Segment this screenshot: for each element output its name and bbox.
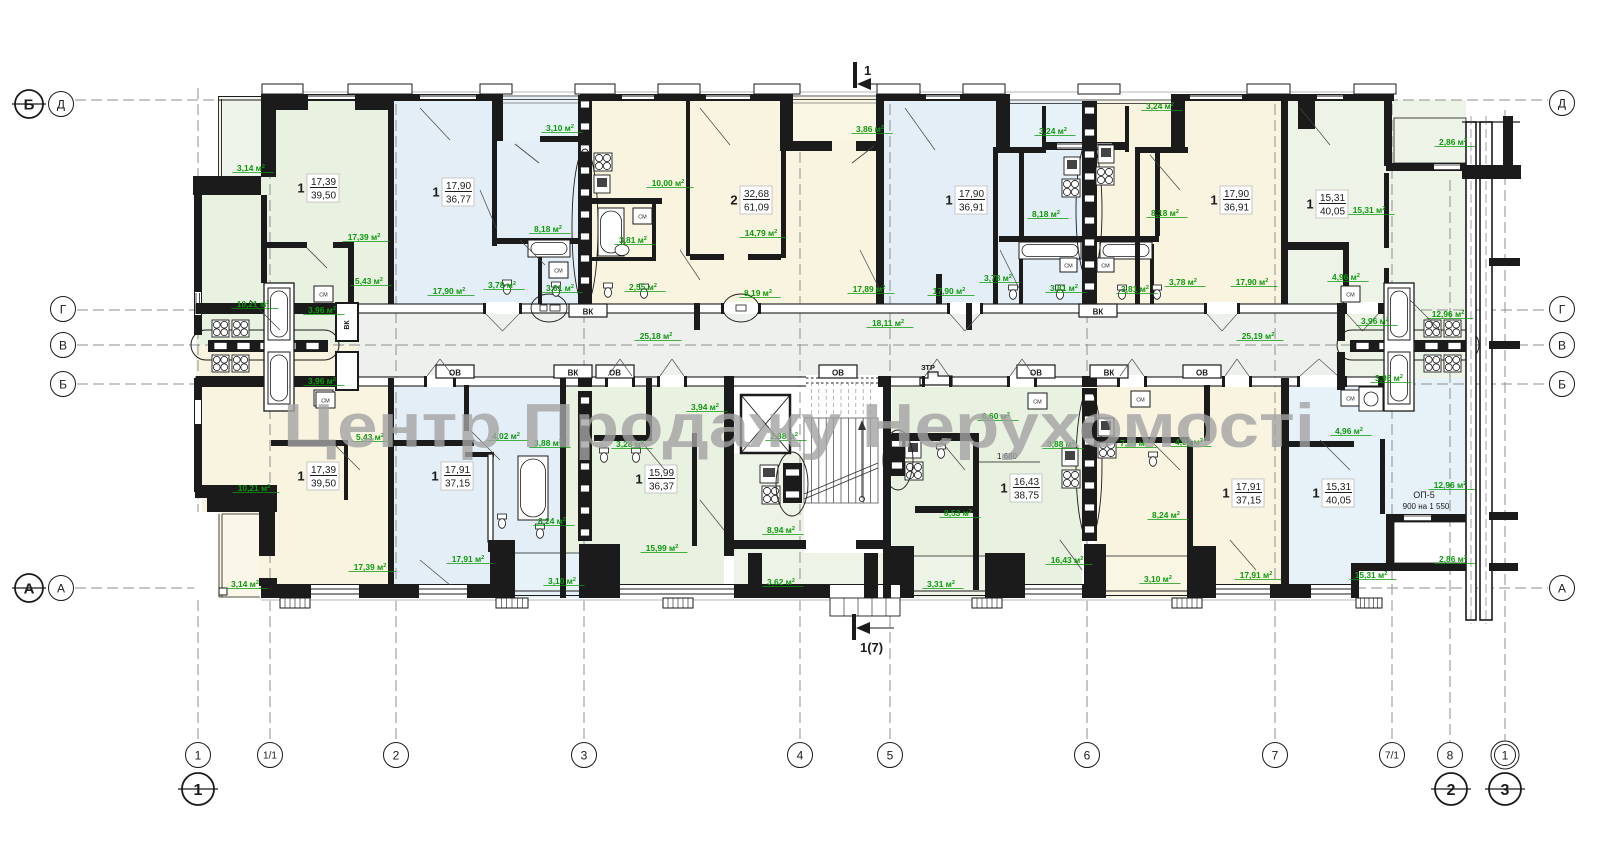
sm box bottom right bbox=[1341, 390, 1360, 406]
right annex double wall pair bbox=[1466, 122, 1476, 620]
svg-text:1: 1 bbox=[431, 469, 438, 484]
stair arrow bbox=[861, 424, 863, 498]
sm boxes bottom center bbox=[1028, 393, 1047, 409]
svg-text:38,75: 38,75 bbox=[1014, 491, 1039, 502]
top-left corner pier bbox=[261, 94, 276, 177]
duct box VK top-left bbox=[569, 304, 607, 317]
right annex top stubs bbox=[1503, 116, 1513, 172]
svg-text:ОВ: ОВ bbox=[609, 369, 621, 378]
left kitchen oval bbox=[191, 330, 339, 360]
sm boxes under tubs bbox=[1060, 258, 1077, 272]
svg-text:17,90 м2: 17,90 м2 bbox=[933, 286, 966, 296]
svg-text:17,91: 17,91 bbox=[445, 465, 470, 476]
svg-text:10,21 м2: 10,21 м2 bbox=[238, 483, 271, 493]
cream2 room left wall bbox=[1135, 149, 1140, 307]
svg-text:3,78 м2: 3,78 м2 bbox=[1169, 277, 1197, 287]
ZTR panel bbox=[920, 372, 952, 385]
svg-text:8: 8 bbox=[1447, 748, 1454, 762]
svg-text:3,24 м2: 3,24 м2 bbox=[1039, 126, 1067, 136]
apartment label 1 17.39/39.50 top bbox=[307, 174, 339, 202]
top-right corner pier bbox=[1298, 94, 1315, 129]
axis circle G left bbox=[51, 297, 76, 322]
svg-text:3,62 м2: 3,62 м2 bbox=[767, 577, 795, 587]
left stoves bbox=[212, 320, 229, 337]
axis line 1/1 vertical bbox=[269, 88, 271, 742]
svg-text:36,91: 36,91 bbox=[959, 203, 984, 214]
svg-text:1: 1 bbox=[297, 469, 304, 484]
svg-text:1(7): 1(7) bbox=[860, 640, 883, 655]
stair kitchen stack left bbox=[783, 463, 802, 503]
svg-text:3,81 м2: 3,81 м2 bbox=[1121, 284, 1149, 294]
svg-text:18,11 м2: 18,11 м2 bbox=[872, 318, 904, 328]
green top-right room bottom wall bbox=[1281, 242, 1347, 250]
axis line 6 vertical bbox=[1086, 88, 1088, 742]
svg-text:СМ: СМ bbox=[319, 293, 328, 299]
apartment label 1 15.31/40.05 top bbox=[1316, 190, 1348, 218]
svg-text:А: А bbox=[24, 580, 35, 597]
svg-text:3,10 м2: 3,10 м2 bbox=[546, 123, 574, 133]
svg-text:3,81 м2: 3,81 м2 bbox=[1050, 283, 1078, 293]
stove cream bottom kitchen bbox=[1098, 440, 1116, 458]
svg-text:3,78 м2: 3,78 м2 bbox=[984, 273, 1012, 283]
svg-text:2,86 м2: 2,86 м2 bbox=[1439, 137, 1467, 147]
apartment hall wall bottom-left bbox=[271, 440, 348, 446]
svg-text:Д: Д bbox=[1558, 96, 1566, 110]
balcony 3.14 top-left bbox=[218, 96, 261, 177]
stove green 38.75 kitchen bbox=[1062, 470, 1080, 488]
svg-text:ВК: ВК bbox=[344, 320, 351, 330]
green 38.75 hall wall bbox=[892, 433, 973, 441]
wall cream/blue bottom right bbox=[1281, 378, 1289, 598]
blue bottom bath walls bbox=[465, 452, 494, 457]
bottom-right step walls bbox=[1351, 563, 1466, 571]
room fill blue apartment bottom-right 40.05 bbox=[1286, 378, 1359, 588]
blue2 kitchen top wall bbox=[993, 147, 1046, 153]
axis line A horizontal bbox=[75, 587, 1548, 589]
green room partition wall bbox=[261, 242, 307, 248]
svg-text:32,68: 32,68 bbox=[744, 189, 769, 200]
svg-text:ВК: ВК bbox=[583, 308, 594, 317]
svg-text:5: 5 bbox=[887, 748, 894, 762]
svg-text:Б: Б bbox=[24, 96, 35, 113]
stair zone fills bbox=[734, 453, 804, 553]
stair kitchen stack right bbox=[889, 434, 905, 476]
axis circle B left bbox=[51, 372, 76, 397]
axis circle G right bbox=[1550, 297, 1575, 322]
bottom outer wall bbox=[261, 584, 1359, 598]
svg-text:1: 1 bbox=[195, 748, 202, 762]
svg-text:3,81 м2: 3,81 м2 bbox=[619, 235, 647, 245]
room fill green apartment bottom 38.75 bbox=[892, 378, 1082, 590]
svg-text:А: А bbox=[1558, 581, 1566, 595]
apartment label 1 17.91/37.15 bottom-left bbox=[441, 462, 473, 490]
tub cream apartment bath bbox=[598, 208, 624, 256]
svg-text:1: 1 bbox=[432, 185, 439, 200]
duct stack bottom axis6 bbox=[1082, 388, 1097, 541]
right horizontal wall with window bbox=[1386, 163, 1466, 171]
corridor fill bbox=[196, 311, 1386, 378]
cream bottom small wall bbox=[1204, 385, 1210, 441]
svg-text:Б: Б bbox=[1558, 377, 1566, 391]
blue 40.05 room right wall bbox=[1380, 439, 1385, 514]
svg-text:17,90: 17,90 bbox=[446, 181, 471, 192]
svg-text:3,78 м2: 3,78 м2 bbox=[488, 280, 516, 290]
axis circle 7/1 bbox=[1380, 743, 1405, 768]
right annex bottom stubs bbox=[1489, 512, 1518, 520]
svg-text:10,21 м2: 10,21 м2 bbox=[237, 299, 270, 309]
corridor top wall solid piers bbox=[196, 303, 265, 314]
blue bottom hall wall bbox=[464, 385, 469, 431]
svg-text:39,50: 39,50 bbox=[311, 191, 336, 202]
sm box bottom-left bbox=[316, 392, 335, 408]
green 38.75 room left wall bbox=[973, 433, 979, 590]
bath wall across blue2 bbox=[999, 236, 1082, 242]
svg-text:ОВ: ОВ bbox=[1196, 369, 1208, 378]
svg-text:3,10 м2: 3,10 м2 bbox=[1144, 574, 1172, 584]
right annex mid stubs bbox=[1489, 258, 1520, 266]
axis circle 4 bbox=[788, 743, 813, 768]
apartment label 2 32.68/61.09 bbox=[740, 186, 772, 214]
top facade loggia 3.86 cream bbox=[793, 94, 876, 101]
svg-text:17,90 м2: 17,90 м2 bbox=[1236, 277, 1269, 287]
svg-text:40,05: 40,05 bbox=[1320, 207, 1345, 218]
svg-text:15,99: 15,99 bbox=[649, 468, 674, 479]
svg-text:А: А bbox=[57, 581, 65, 595]
entrance opening bottom bbox=[830, 585, 900, 598]
svg-text:17,91 м2: 17,91 м2 bbox=[1240, 570, 1273, 580]
axis line G horizontal bbox=[77, 309, 1548, 311]
corridor bottom wall band bbox=[196, 377, 1386, 386]
wall between green and blue apartments top bbox=[388, 94, 394, 311]
svg-text:2,55 м2: 2,55 м2 bbox=[629, 282, 657, 292]
section marker 1 top bbox=[853, 62, 857, 88]
right kitchen oval bbox=[1337, 330, 1479, 360]
outside white bottom-left bbox=[194, 512, 218, 600]
blue apartment top room right wall bbox=[492, 101, 497, 246]
stair vestibule wall bbox=[734, 540, 806, 549]
svg-text:ВК: ВК bbox=[1093, 308, 1104, 317]
section marker 1(7) bottom bbox=[852, 614, 856, 640]
svg-text:1: 1 bbox=[1222, 486, 1229, 501]
corridor bottom wall door gaps bbox=[426, 375, 454, 387]
stove cream2 kitchen bbox=[1096, 167, 1114, 185]
room fill blue apartment top 36.77 bbox=[390, 100, 592, 311]
tub blue2 bbox=[1019, 242, 1081, 259]
right block left walls bbox=[1337, 303, 1345, 341]
left duct bar bbox=[208, 340, 328, 352]
blue bottom right partition bbox=[1286, 441, 1354, 447]
sm boxes left block bbox=[314, 286, 333, 302]
svg-text:3: 3 bbox=[1501, 782, 1510, 799]
top outer wall bbox=[261, 94, 1394, 101]
corridor top wall door gaps bbox=[485, 302, 520, 314]
window OP-5 wall bbox=[1386, 514, 1466, 522]
duct stack bottom axis3 bbox=[578, 391, 592, 541]
cream apartment kitchen walls bbox=[592, 198, 662, 204]
svg-text:Г: Г bbox=[60, 302, 67, 316]
stove cream kitchen bbox=[594, 153, 612, 171]
svg-text:10,00 м2: 10,00 м2 bbox=[652, 178, 685, 188]
svg-text:15,31: 15,31 bbox=[1326, 482, 1351, 493]
right stoves bbox=[1424, 320, 1441, 337]
svg-text:7/1: 7/1 bbox=[1385, 751, 1399, 762]
stair flight bbox=[804, 418, 878, 503]
svg-text:8,94 м2: 8,94 м2 bbox=[767, 525, 795, 535]
wall cream/blue apartments bottom bbox=[388, 378, 394, 598]
cream2 kitchen top wall bbox=[1135, 147, 1188, 153]
svg-text:3,96 м2: 3,96 м2 bbox=[1361, 316, 1389, 326]
axis circle A right bbox=[1550, 576, 1575, 601]
svg-text:ЗТР: ЗТР bbox=[921, 363, 935, 372]
axis circle A left bbox=[49, 576, 74, 601]
svg-text:Б: Б bbox=[59, 377, 67, 391]
corridor bottom wall solid piers bbox=[196, 376, 265, 387]
bottom facade loggia 3.31 green bbox=[888, 546, 914, 598]
apartment label 1 17.39/39.50 bottom bbox=[307, 462, 339, 490]
duct box VK top-right bbox=[1079, 304, 1117, 317]
axis line 2 vertical bbox=[395, 88, 397, 742]
svg-text:СМ: СМ bbox=[1101, 264, 1110, 270]
svg-text:1/1: 1/1 bbox=[263, 751, 277, 762]
axis line 7/1 vertical bbox=[1391, 88, 1393, 742]
green 36.37 bath walls bbox=[594, 435, 652, 441]
axis line 3 vertical bbox=[583, 88, 585, 742]
left block VK ducts bbox=[336, 303, 358, 341]
wing room right wall bbox=[261, 195, 267, 283]
duct stack axis6 top bbox=[1082, 101, 1097, 307]
svg-text:36,91: 36,91 bbox=[1224, 203, 1249, 214]
axis circle 7 bbox=[1263, 743, 1288, 768]
sm box blue bath bbox=[549, 262, 568, 278]
duct stack axis3 top bbox=[578, 95, 592, 305]
axis circle 1 bold bottom-left bbox=[182, 773, 214, 805]
cream bottom room left wall bbox=[1187, 441, 1193, 590]
facade shadow lines bbox=[261, 91, 1394, 93]
apartment label 1 17.90/36.91 left bbox=[955, 186, 987, 214]
tub blue apartment top bbox=[528, 240, 570, 257]
svg-text:1: 1 bbox=[1210, 193, 1217, 208]
svg-text:3,81 м2: 3,81 м2 bbox=[546, 283, 574, 293]
wall cream/blue apartments top bbox=[876, 94, 884, 311]
svg-text:1: 1 bbox=[297, 181, 304, 196]
cream rooms lower wall bbox=[690, 254, 724, 260]
svg-text:8,24 м2: 8,24 м2 bbox=[538, 516, 566, 526]
svg-text:ВК: ВК bbox=[568, 369, 579, 378]
bottom facade loggia 3.10 blue bbox=[467, 584, 512, 598]
entrance door symbol cream apartment bbox=[723, 294, 759, 322]
svg-text:25,18 м2: 25,18 м2 bbox=[640, 331, 673, 341]
svg-text:3: 3 bbox=[581, 748, 588, 762]
top wall windows bbox=[308, 95, 355, 100]
room fill green apartment bottom 36.37 bbox=[560, 378, 724, 590]
left outer wall upper bbox=[194, 195, 202, 335]
axis line 4 vertical bbox=[799, 88, 801, 742]
axis circle 1/1 bbox=[258, 743, 283, 768]
stair zone right wall bbox=[883, 378, 891, 598]
stair upper dashed bbox=[810, 382, 812, 414]
top wall recess near axis 6 bbox=[1008, 94, 1173, 101]
left outer wall lower bbox=[194, 378, 202, 492]
stair open edge dotted bbox=[806, 375, 878, 387]
svg-text:17,39: 17,39 bbox=[311, 177, 336, 188]
axis circle 3 bbox=[572, 743, 597, 768]
svg-text:36,77: 36,77 bbox=[446, 195, 471, 206]
svg-text:8,53 м2: 8,53 м2 bbox=[944, 508, 972, 518]
apartment label 1 16.43/38.75 bbox=[1010, 474, 1042, 502]
leader lines bbox=[420, 108, 450, 140]
svg-text:16,43: 16,43 bbox=[1014, 477, 1039, 488]
svg-text:3,14 м2: 3,14 м2 bbox=[231, 579, 259, 589]
axis circle B right bbox=[1550, 372, 1575, 397]
left bath column bbox=[264, 283, 294, 411]
axis line 1r vertical bbox=[1504, 110, 1506, 742]
room fill cream apartment bottom-left 39.50 bbox=[202, 378, 388, 590]
apartment label 1 17.90/36.77 bbox=[442, 178, 474, 206]
axis circle D top-left bbox=[49, 92, 74, 117]
left wing top wall bbox=[193, 176, 261, 195]
svg-text:1: 1 bbox=[1312, 486, 1319, 501]
annex cross bar bbox=[1462, 165, 1521, 179]
axis line 1 vertical bbox=[197, 88, 199, 742]
axis circle A bottom-left bold bbox=[15, 574, 43, 602]
svg-text:СМ: СМ bbox=[554, 269, 563, 275]
duct box OV left bbox=[436, 365, 474, 378]
axis circle 2 bold bottom-right bbox=[1435, 773, 1467, 805]
balcony slabs above top wall bbox=[262, 84, 303, 94]
axis circle V left bbox=[51, 333, 76, 358]
svg-text:17,39 м2: 17,39 м2 bbox=[354, 562, 387, 572]
axis line 5 vertical bbox=[889, 88, 891, 742]
blue apartment bath walls bbox=[492, 238, 578, 244]
svg-text:16,43 м2: 16,43 м2 bbox=[1051, 555, 1084, 565]
svg-text:15,99 м2: 15,99 м2 bbox=[646, 543, 679, 553]
svg-text:17,39: 17,39 bbox=[311, 465, 336, 476]
cream bottom hall walls bbox=[1097, 437, 1189, 443]
svg-text:1: 1 bbox=[1000, 481, 1007, 496]
axis circle 3 bold bottom-right bbox=[1489, 773, 1521, 805]
svg-text:15,31: 15,31 bbox=[1320, 193, 1345, 204]
svg-text:2: 2 bbox=[730, 193, 737, 208]
bottom facade loggia 3.10 cream bbox=[1084, 544, 1106, 598]
svg-text:2: 2 bbox=[1447, 782, 1456, 799]
svg-text:2: 2 bbox=[393, 748, 400, 762]
svg-text:12,96 м2: 12,96 м2 bbox=[1434, 480, 1467, 490]
svg-text:3,14 м2: 3,14 м2 bbox=[237, 163, 265, 173]
apartment label 1 15.99/36.37 bbox=[645, 465, 677, 493]
svg-text:ОП-5: ОП-5 bbox=[1413, 490, 1434, 500]
svg-text:17,39 м2: 17,39 м2 bbox=[348, 232, 381, 242]
svg-text:25,19 м2: 25,19 м2 bbox=[1242, 331, 1275, 341]
entrance porch bbox=[830, 598, 900, 616]
green 38.75 kitchen wall bbox=[915, 506, 973, 513]
svg-text:7: 7 bbox=[1272, 748, 1279, 762]
svg-text:37,15: 37,15 bbox=[445, 479, 470, 490]
svg-text:ОВ: ОВ bbox=[832, 369, 844, 378]
svg-text:4,96 м2: 4,96 м2 bbox=[1332, 272, 1360, 282]
svg-text:17,91: 17,91 bbox=[1236, 482, 1261, 493]
door swing lines corridor bbox=[486, 314, 503, 331]
svg-text:17,89 м2: 17,89 м2 bbox=[853, 284, 886, 294]
svg-text:1: 1 bbox=[945, 193, 952, 208]
svg-text:Д: Д bbox=[57, 97, 65, 111]
svg-text:3,86 м2: 3,86 м2 bbox=[856, 124, 884, 134]
svg-text:900 на 1 550: 900 на 1 550 bbox=[1403, 502, 1450, 511]
axis circle D right bbox=[1550, 91, 1575, 116]
svg-text:8,24 м2: 8,24 м2 bbox=[1152, 510, 1180, 520]
sm box cream bath bbox=[633, 208, 652, 224]
svg-text:39,50: 39,50 bbox=[311, 479, 336, 490]
svg-text:3,31 м2: 3,31 м2 bbox=[927, 579, 955, 589]
svg-text:14,79 м2: 14,79 м2 bbox=[745, 228, 778, 238]
axis circle V right bbox=[1550, 333, 1575, 358]
svg-text:17,91 м2: 17,91 м2 bbox=[452, 554, 485, 564]
apartment label 1 17.91/37.15 bottom-right bbox=[1232, 479, 1264, 507]
apartment label 1 17.90/36.91 right bbox=[1220, 186, 1252, 214]
svg-text:17,90: 17,90 bbox=[1224, 189, 1249, 200]
svg-text:ВК: ВК bbox=[1104, 369, 1115, 378]
svg-text:3,96 м2: 3,96 м2 bbox=[308, 376, 336, 386]
elevator shaft bbox=[741, 395, 790, 453]
stair bottom piers bbox=[748, 553, 762, 598]
svg-text:3,10 м2: 3,10 м2 bbox=[548, 576, 576, 586]
wall cream2/green apartments top bbox=[1281, 94, 1288, 311]
svg-text:2,86 м2: 2,86 м2 bbox=[1439, 554, 1467, 564]
svg-text:36,37: 36,37 bbox=[649, 482, 674, 493]
balcony slabs below bottom wall bbox=[280, 598, 310, 608]
axis line 8 vertical bbox=[1449, 180, 1451, 742]
axis line V horizontal bbox=[77, 344, 1548, 346]
stair zone left wall bbox=[724, 378, 734, 556]
duct box OV mid bbox=[596, 365, 634, 378]
svg-text:3,96 м2: 3,96 м2 bbox=[1375, 373, 1403, 383]
wall rooms cream top bbox=[781, 94, 786, 258]
svg-text:40,05: 40,05 bbox=[1326, 496, 1351, 507]
svg-text:17,90 м2: 17,90 м2 bbox=[433, 286, 466, 296]
svg-text:5,43 м2: 5,43 м2 bbox=[355, 276, 383, 286]
entrance door symbol blue apartment bbox=[531, 294, 567, 322]
svg-text:3,24 м2: 3,24 м2 bbox=[1146, 101, 1174, 111]
blue2 room right wall bbox=[993, 149, 998, 307]
axis circle B top-left bold bbox=[15, 90, 43, 118]
wall blue/green apartments bottom bbox=[560, 378, 566, 598]
duct box OV stair bbox=[819, 365, 857, 378]
stove blue2 kitchen bbox=[1062, 179, 1080, 197]
room fill cream apartment bottom 37.15 bbox=[1095, 378, 1286, 590]
loggia 2.86 bottom-right bbox=[1394, 522, 1466, 563]
room fill cream apartment top 36.91 bbox=[1095, 100, 1286, 311]
blue2 hall wall bbox=[936, 274, 942, 311]
tub blue bottom bath bbox=[518, 456, 548, 520]
right wall top piece bbox=[1384, 94, 1392, 166]
svg-text:1: 1 bbox=[635, 472, 642, 487]
svg-text:Центр Продажу Нерухомості: Центр Продажу Нерухомості bbox=[283, 392, 1315, 461]
svg-text:Г: Г bbox=[1559, 302, 1566, 316]
svg-text:1: 1 bbox=[194, 782, 203, 799]
svg-text:СМ: СМ bbox=[1064, 264, 1073, 270]
svg-text:6: 6 bbox=[1084, 748, 1091, 762]
svg-text:8,18 м2: 8,18 м2 bbox=[1151, 208, 1179, 218]
svg-text:СМ: СМ bbox=[638, 215, 647, 221]
top facade loggia 3.10 blue bbox=[503, 94, 580, 101]
wall kitchen/room cream top bbox=[686, 94, 690, 256]
duct box VK mid bbox=[554, 365, 592, 378]
blue2 bath cell walls bbox=[1019, 244, 1023, 304]
axis line 7 vertical bbox=[1274, 88, 1276, 742]
right service block fill bbox=[1337, 311, 1466, 378]
corridor top wall band bbox=[196, 304, 1386, 313]
left wing bottom stepped walls bbox=[195, 485, 277, 498]
svg-text:СМ: СМ bbox=[1346, 293, 1355, 299]
